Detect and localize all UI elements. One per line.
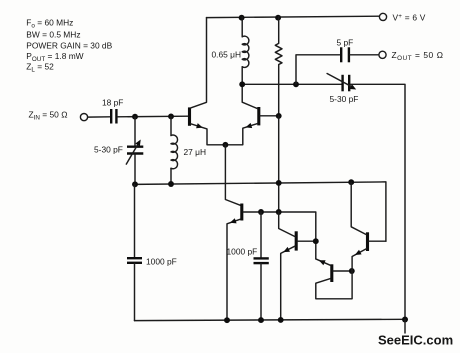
svg-text:18 pF: 18 pF bbox=[102, 98, 123, 108]
mid rail y183.5 bbox=[135, 182, 386, 241]
node Q3 base line / R1 line bbox=[276, 209, 282, 215]
capacitor C4 5 pF bbox=[341, 47, 349, 62]
Q6 emitter lead bbox=[352, 249, 366, 271]
wire L2 bottom lead bbox=[241, 67, 243, 85]
trimmer capacitor 5-30 pF input bbox=[127, 147, 143, 154]
ground stub bbox=[404, 319, 406, 333]
V+ terminal bbox=[379, 13, 386, 20]
svg-text:0.65 μH: 0.65 μH bbox=[212, 49, 242, 59]
node Q5 base bbox=[349, 268, 355, 274]
inductor L2 0.65 uH bbox=[242, 36, 249, 67]
node mid rail / R1 line bbox=[276, 180, 282, 186]
Q6 collector lead bbox=[351, 182, 366, 234]
node input line / 27uH bbox=[168, 113, 174, 119]
node emitter junction bbox=[222, 142, 228, 148]
svg-text:1000 pF: 1000 pF bbox=[227, 246, 258, 256]
spec text block bbox=[26, 18, 112, 74]
svg-text:5 pF: 5 pF bbox=[337, 38, 354, 48]
Q6 emitter arrow bbox=[355, 250, 362, 255]
node mid rail / 27uH bbox=[168, 181, 174, 187]
Q1 emitter arrow bbox=[196, 123, 203, 128]
node Q4 base bbox=[313, 238, 319, 244]
Q2 collector lead bbox=[242, 84, 257, 108]
node L2 bottom bbox=[239, 81, 245, 87]
top rail bbox=[207, 16, 380, 17]
transistor Q5 base bar bbox=[330, 264, 333, 282]
inductor L1 27 uH bbox=[171, 135, 178, 169]
Q4 emitter arrow bbox=[283, 247, 290, 252]
Q1 collector lead bbox=[191, 18, 207, 108]
input terminal bbox=[80, 114, 87, 121]
Q4 collector lead bbox=[279, 212, 295, 237]
trimmer arrow bbox=[126, 143, 138, 164]
wire input to C1 bbox=[88, 116, 110, 118]
wire R1 vertical to Q3 base line bbox=[278, 116, 280, 212]
svg-text:POWER GAIN = 30 dB: POWER GAIN = 30 dB bbox=[26, 41, 112, 51]
svg-text:5-30 pF: 5-30 pF bbox=[330, 94, 359, 104]
capacitor C6 1000 pF bbox=[254, 212, 269, 320]
node bottom rail / feedback bbox=[402, 317, 408, 323]
node mid rail / trimmer bbox=[132, 181, 138, 187]
Q6 base wire bbox=[369, 240, 386, 242]
wire C4 to output terminal bbox=[350, 54, 378, 56]
Q2 emitter arrow bbox=[246, 123, 253, 128]
svg-text:1000 pF: 1000 pF bbox=[146, 256, 177, 266]
output terminal bbox=[379, 51, 386, 58]
Q5 emitter arrow bbox=[319, 260, 326, 265]
node bottom rail / C6 bbox=[258, 317, 264, 323]
Q4 emitter lead bbox=[281, 246, 295, 320]
Q2 emitter lead bbox=[225, 124, 257, 145]
node y85 / output tap bbox=[293, 81, 299, 87]
Q1 emitter lead bbox=[191, 124, 226, 145]
Q3 emitter lead bbox=[227, 219, 240, 320]
wire 27uH top lead bbox=[170, 116, 172, 135]
transistor Q3 base bar bbox=[240, 204, 243, 221]
node top rail / L2 bbox=[239, 15, 245, 21]
trimmer C5 arrow bbox=[327, 74, 352, 87]
capacitor C3 1000 pF left bbox=[127, 184, 142, 320]
Q4 base wire bbox=[298, 240, 316, 242]
node Q3 base line / C6 bbox=[258, 209, 264, 215]
Q3 emitter arrow bbox=[230, 218, 237, 223]
node input line / trimmer bbox=[132, 114, 138, 120]
svg-text:SeeEIC.com: SeeEIC.com bbox=[378, 333, 453, 348]
svg-text:5-30 pF: 5-30 pF bbox=[94, 145, 123, 155]
trimmer capacitor C5 5-30 pF output bbox=[343, 75, 350, 92]
wire trimmer top lead bbox=[134, 117, 136, 147]
transistor Q2 base bar bbox=[257, 107, 260, 125]
bottom rail bbox=[135, 319, 406, 320]
Q2 base wire bbox=[260, 115, 279, 117]
Q5 emitter lead bbox=[316, 259, 331, 265]
wire C5 right to feedback line bbox=[351, 84, 406, 319]
resistor R1 bbox=[275, 17, 282, 116]
wire C1 to Q1 base bbox=[118, 115, 188, 118]
node Q2 base / R1 bbox=[276, 113, 282, 119]
capacitor C1 18 pF bbox=[111, 109, 116, 124]
wire mid horizontal y85 bbox=[242, 83, 341, 85]
wire tail vertical bbox=[225, 145, 240, 206]
transistor Q6 base bar bbox=[366, 232, 369, 251]
transistor Q4 base bar bbox=[295, 231, 298, 250]
wire L2 top lead bbox=[241, 17, 243, 37]
svg-text:27 μH: 27 μH bbox=[184, 147, 207, 157]
node bottom rail / Q4 emitter bbox=[278, 317, 284, 323]
wire trimmer bottom lead bbox=[134, 154, 136, 185]
Q5 base wire bbox=[333, 270, 352, 272]
wire 27uH bottom lead bbox=[170, 168, 172, 184]
Q3 base line bbox=[243, 212, 316, 259]
node bottom rail / Q3 emitter bbox=[224, 317, 230, 323]
svg-text:BW = 0.5 MHz: BW = 0.5 MHz bbox=[26, 30, 80, 40]
svg-text:V+ = 6 V: V+ = 6 V bbox=[393, 12, 426, 22]
node top rail / R1 bbox=[275, 15, 281, 21]
wire output tap up bbox=[296, 55, 340, 85]
Q5 collector loop bbox=[316, 271, 352, 299]
node mid rail / Q6 collector bbox=[348, 179, 354, 185]
transistor Q1 base bar bbox=[188, 107, 191, 125]
